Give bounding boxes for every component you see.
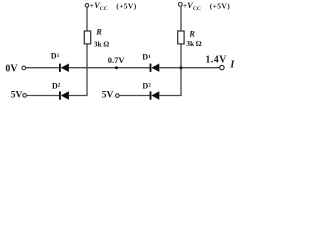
wire 5V-middle to D2 right [119,95,150,97]
terminal +Vcc left [85,4,89,8]
terminal input 5V middle [116,94,120,98]
svg-text:3k Ω: 3k Ω [94,39,109,48]
wire D2-left to left branch corner [69,95,88,97]
resistor R left [84,31,90,44]
wire Vcc-left to resistor [86,7,88,31]
svg-text:D1: D1 [51,52,60,61]
wire resistor-right down to bottom row [180,44,182,96]
terminal input 0V [22,66,26,70]
svg-text:3k Ω: 3k Ω [186,39,201,48]
resistor R right [178,31,184,44]
svg-text:+VCC: +VCC [90,0,108,12]
svg-text:R: R [95,26,102,36]
svg-text:D2: D2 [52,81,61,90]
svg-text:D1: D1 [142,53,151,62]
diode D1 left [60,64,69,72]
diode D2 right [151,91,160,99]
svg-text:(+5V): (+5V) [210,2,231,11]
wire D1-right to output terminal [159,67,220,69]
svg-text:I: I [229,59,235,70]
diode D2 left [60,91,69,99]
wire top row: D1-left to D1-right through 0.7V node [69,67,151,69]
wire resistor-left down to bottom row [86,44,88,96]
node 0.7V junction dot [115,66,118,69]
svg-text:1.4V: 1.4V [205,55,227,66]
diode D1 right [151,64,160,72]
svg-text:D2: D2 [142,82,151,91]
junction dot output node [180,66,183,69]
terminal input 5V left [23,94,27,98]
svg-text:5V: 5V [11,91,23,101]
svg-text:(+5V): (+5V) [116,2,137,11]
wire 0V to D1 left [26,67,60,69]
svg-text:+VCC: +VCC [183,0,201,12]
wire Vcc-right to resistor [180,6,182,31]
svg-text:0.7V: 0.7V [108,55,126,65]
terminal +Vcc right [178,3,182,7]
wire D2-right to right branch corner [159,95,182,97]
svg-text:5V: 5V [102,91,114,101]
svg-text:0V: 0V [5,64,18,75]
terminal output [220,65,224,69]
wire 5V to D2 left [27,95,60,97]
svg-text:R: R [188,28,195,38]
